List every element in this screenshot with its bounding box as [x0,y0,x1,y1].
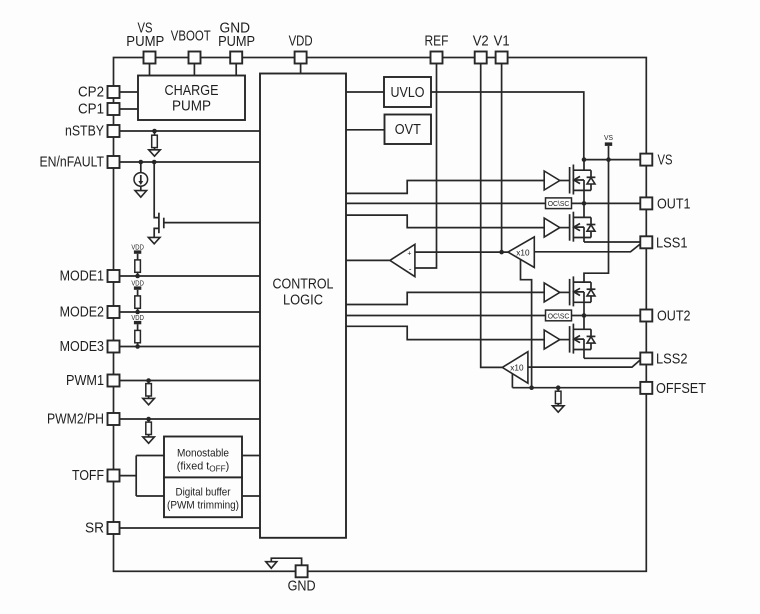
svg-text:OUT2: OUT2 [657,309,691,325]
node OUT2 junction [582,313,587,318]
chip outer border [114,58,647,572]
svg-text:CP2: CP2 [78,85,104,101]
wire V1 net [501,64,503,253]
wire PWM2/PH to control logic [120,418,261,420]
svg-text:PWM2/PH: PWM2/PH [47,412,104,428]
wire control logic to OCSC2 [346,315,546,317]
svg-text:GND: GND [288,579,316,595]
pin V1 [494,34,510,64]
node EN tap B [152,160,157,165]
svg-text:(PWM trimming): (PWM trimming) [167,500,239,512]
svg-text:VDD: VDD [131,278,144,287]
ground PWM1 [143,398,155,404]
gate driver G4 [544,330,560,349]
pin CP2 [78,85,120,101]
svg-text:OFFSET: OFFSET [656,381,706,397]
ground OFFSET [552,406,564,412]
OCSC2 block [546,310,572,321]
svg-text:Digital buffer: Digital buffer [176,487,231,499]
wire VDD pin to control logic [300,64,302,74]
wire digital buffer to control logic [242,495,260,497]
body diode D2 [587,217,596,237]
wire REF net [415,64,437,269]
wire VS rail [584,146,609,282]
svg-text:OVT: OVT [395,121,421,138]
svg-text:V2: V2 [473,34,489,50]
svg-text:x10: x10 [510,364,524,373]
pin MODE3 [60,339,120,355]
svg-text:TOFF: TOFF [72,468,104,484]
pin VS PUMP [126,21,164,64]
pin REF [425,34,449,64]
ground Q1 [148,237,160,243]
node PWM2 tap [146,417,151,422]
svg-text:x10: x10 [516,248,530,257]
node OUT1 junction [582,201,587,206]
pin OUT2 [640,309,690,325]
wire x10 amp1 input from LSS1 [534,244,640,252]
amplifier x10 A3 [502,352,528,384]
ground nSTBY [149,150,161,156]
wire control logic to OVT [346,129,385,131]
gate driver G2 [544,218,560,237]
wire control logic to gate driver G1 [346,181,544,194]
svg-text:+: + [407,251,411,258]
VDD supply MODE2 [131,278,144,290]
wire x10 amp1 output to comparator [415,251,508,253]
pin PWM2/PH [47,412,120,428]
wire nSTBY to control logic [120,130,261,132]
resistor MODE1 pull-up [135,254,141,276]
svg-text:OC\SC: OC\SC [548,311,570,320]
pin VS [640,153,672,169]
transistor LS2 [560,316,591,359]
ground I1 [135,191,147,198]
wire MODE2 to control logic [120,311,261,313]
wire EN/nFAULT to control logic [120,161,261,163]
wire CP1 pin to charge pump [120,108,139,110]
UVLO block [384,77,431,107]
node EN tap A [139,160,144,165]
wire PWM1 to control logic [120,380,261,382]
wire OFFSET net [512,387,640,389]
wire VBOOT pin to charge pump [193,64,195,76]
wire OUT1 net [572,202,641,204]
wire VS net to VS pin [584,159,640,161]
pin VBOOT [171,29,211,64]
svg-text:REF: REF [425,34,449,50]
svg-text:PUMP: PUMP [126,34,164,50]
wire MODE1 to control logic [120,275,261,277]
svg-text:CONTROL: CONTROL [273,276,334,293]
pin LSS1 [640,235,687,251]
svg-text:CP1: CP1 [78,102,104,118]
resistor MODE2 pull-up [135,290,141,312]
pin TOFF [72,468,120,484]
pin OFFSET [640,381,706,397]
pin V2 [473,34,489,64]
wire SR to control logic [120,527,261,529]
monostable block [164,437,242,478]
ground arrow GND [266,562,277,569]
wire CP2 pin to charge pump [120,91,139,93]
svg-text:VDD: VDD [131,242,144,251]
node MODE2 tap [135,310,140,315]
wire control logic to gate driver G2 [346,215,544,228]
pin SR [85,521,120,537]
node MODE3 tap [135,344,140,349]
digital buffer block [164,477,242,517]
svg-text:VS: VS [604,133,613,142]
svg-text:VDD: VDD [289,34,313,50]
OVT block [385,115,432,145]
pin VDD [289,34,313,64]
svg-text:VDD: VDD [131,313,144,322]
pin MODE1 [60,269,120,285]
svg-text:EN/nFAULT: EN/nFAULT [40,155,105,171]
svg-text:V1: V1 [494,34,510,50]
pin GND [288,565,316,594]
svg-text:UVLO: UVLO [391,84,425,101]
node nSTBY tap [152,129,157,134]
wire control logic to UVLO [346,91,384,93]
pin MODE2 [60,305,120,321]
node PWM1 tap [146,378,151,383]
charge pump block U1 [138,76,245,121]
transistor HS1 [560,160,591,204]
svg-text:VS: VS [658,153,673,169]
pin PWM1 [66,373,120,389]
wire x10 amp1 reference to offset net [521,260,532,388]
svg-text:PUMP: PUMP [172,98,211,115]
svg-text:LOGIC: LOGIC [283,292,323,309]
body diode D4 [587,329,596,349]
transistor Q1 [154,162,260,237]
wire control logic to gate driver G4 [346,326,544,339]
gate driver G1 [544,171,560,190]
wire x10 amp2 input from LSS2 [528,360,640,367]
comparator A1 output to control logic [346,259,390,261]
wire monostable to control logic [242,455,260,457]
wire TOFF branch [120,456,165,497]
wire LSS2 net [584,357,640,359]
resistor PWM2 pull-down [146,419,152,437]
resistor OFFSET pull-down [555,388,561,406]
node VS junction A [582,157,587,162]
ground PWM2 [143,437,155,443]
svg-text:OUT1: OUT1 [657,196,691,212]
control logic block U2 [260,74,346,538]
svg-text:PWM1: PWM1 [66,373,104,389]
wire UVLO to VS net [431,92,584,160]
wire LSS1 net [584,241,640,243]
VDD supply MODE1 [131,242,144,253]
pin GND PUMP [218,21,255,64]
svg-text:MODE1: MODE1 [60,269,104,285]
node VS junction B [606,157,611,162]
pin OUT1 [640,196,690,212]
wire MODE3 to control logic [120,346,261,348]
svg-text:-: - [409,265,412,274]
gate driver G3 [544,283,560,302]
svg-text:VBOOT: VBOOT [171,29,211,45]
svg-text:MODE3: MODE3 [60,339,104,355]
svg-text:MODE2: MODE2 [60,305,104,321]
OCSC1 block [546,198,572,209]
pin EN/nFAULT [40,155,120,171]
svg-text:LSS2: LSS2 [656,352,688,368]
resistor nSTBY pull-down [152,131,158,150]
transistor LS1 [560,203,591,242]
wire GND PUMP pin to charge pump [235,64,237,76]
node MODE1 tap [135,274,140,279]
node OFFSET junction B [556,385,561,390]
ground hook at GND pin [271,558,301,565]
wire x10 amp2 reference to offset net [511,374,513,388]
svg-text:OC\SC: OC\SC [548,199,570,208]
body diode D3 [587,282,596,302]
svg-text:SR: SR [85,521,104,537]
VDD supply MODE3 [131,313,144,325]
amplifier x10 A2 [508,237,534,268]
pin nSTBY [65,124,120,140]
resistor MODE3 pull-up [135,324,141,346]
svg-text:Monostable: Monostable [177,448,229,460]
svg-text:PUMP: PUMP [218,34,255,50]
current source I1 [134,162,148,191]
comparator A1 [390,244,415,276]
resistor PWM1 pull-down [146,381,152,399]
VS supply symbol [604,133,613,146]
wire control logic to gate driver G3 [346,292,544,304]
wire OUT2 net [572,315,641,317]
body diode D1 [587,170,596,190]
transistor HS2 [560,276,591,315]
node V1 junction [499,250,504,255]
wire VS PUMP pin to charge pump [149,64,151,76]
node OFFSET junction A [529,385,534,390]
svg-text:nSTBY: nSTBY [65,124,104,140]
svg-text:LSS1: LSS1 [656,235,688,251]
svg-text:CHARGE: CHARGE [165,82,219,99]
wire control logic to OCSC1 [346,202,546,204]
pin CP1 [78,102,120,118]
wire V2 net [481,64,503,368]
pin LSS2 [640,352,687,368]
